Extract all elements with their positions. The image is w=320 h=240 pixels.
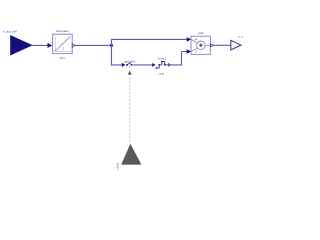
- integrator I mark: [62, 47, 64, 51]
- sample1 block: [126, 63, 132, 66]
- junction node: [110, 44, 113, 47]
- clock dashed wire: [129, 66, 131, 144]
- sample1 input arrow: [122, 63, 126, 67]
- add input line u2 to circle: [191, 48, 197, 51]
- add input line u1 to circle: [191, 40, 197, 43]
- wire integrator to junction: [75, 44, 112, 46]
- svg-text:0.0: 0.0: [159, 72, 164, 76]
- hold dot 3: [161, 61, 163, 63]
- svg-text:+1: +1: [194, 37, 198, 41]
- add u1 arrow: [187, 37, 191, 42]
- hold dot 2: [158, 64, 160, 66]
- sample switch arm: [127, 63, 131, 65]
- hold dot 1: [156, 67, 158, 69]
- add plus sign: [199, 44, 203, 46]
- sample contact dot left: [126, 64, 128, 66]
- add output connector: [211, 44, 214, 47]
- hold staircase: [157, 62, 169, 68]
- sample contact dot right: [130, 64, 132, 66]
- clock input triangle on sample1: [128, 71, 132, 75]
- svg-text:sample1: sample1: [124, 59, 136, 63]
- wire junction down to sample1: [112, 45, 123, 65]
- hold dot 4: [164, 64, 166, 66]
- add circle: [197, 41, 206, 50]
- hold output connector: [168, 64, 170, 67]
- wire input to integrator: [32, 44, 49, 46]
- wire add to output: [213, 44, 230, 46]
- output connector n_s: [231, 40, 241, 50]
- add block: [191, 36, 210, 54]
- svg-text:clock: clock: [115, 162, 119, 170]
- integrator axis x: [53, 50, 71, 52]
- wire sample1 to hold1: [132, 64, 152, 66]
- svg-text:-1: -1: [194, 50, 197, 54]
- integrator U1: [53, 34, 73, 53]
- hold1 block: [156, 61, 171, 69]
- add u2 arrow: [187, 49, 191, 54]
- svg-text:n_act_del: n_act_del: [3, 29, 17, 33]
- add circle to output line: [205, 44, 210, 46]
- integrator ramp line: [55, 36, 70, 51]
- wire hold1 to add u2: [171, 52, 187, 65]
- integrator axis y: [54, 36, 56, 52]
- wire junction to add u1: [112, 39, 188, 45]
- clock: [122, 144, 141, 164]
- svg-text:add: add: [198, 31, 203, 35]
- svg-text:hold1: hold1: [159, 56, 167, 60]
- integrator input arrow: [48, 43, 53, 48]
- input connector n_act_del: [11, 36, 33, 56]
- svg-text:integrator: integrator: [56, 29, 69, 33]
- integrator output connector: [72, 44, 75, 48]
- svg-text:n_s: n_s: [238, 35, 243, 39]
- svg-text:k=1: k=1: [60, 56, 65, 60]
- hold1 input arrow: [152, 63, 155, 67]
